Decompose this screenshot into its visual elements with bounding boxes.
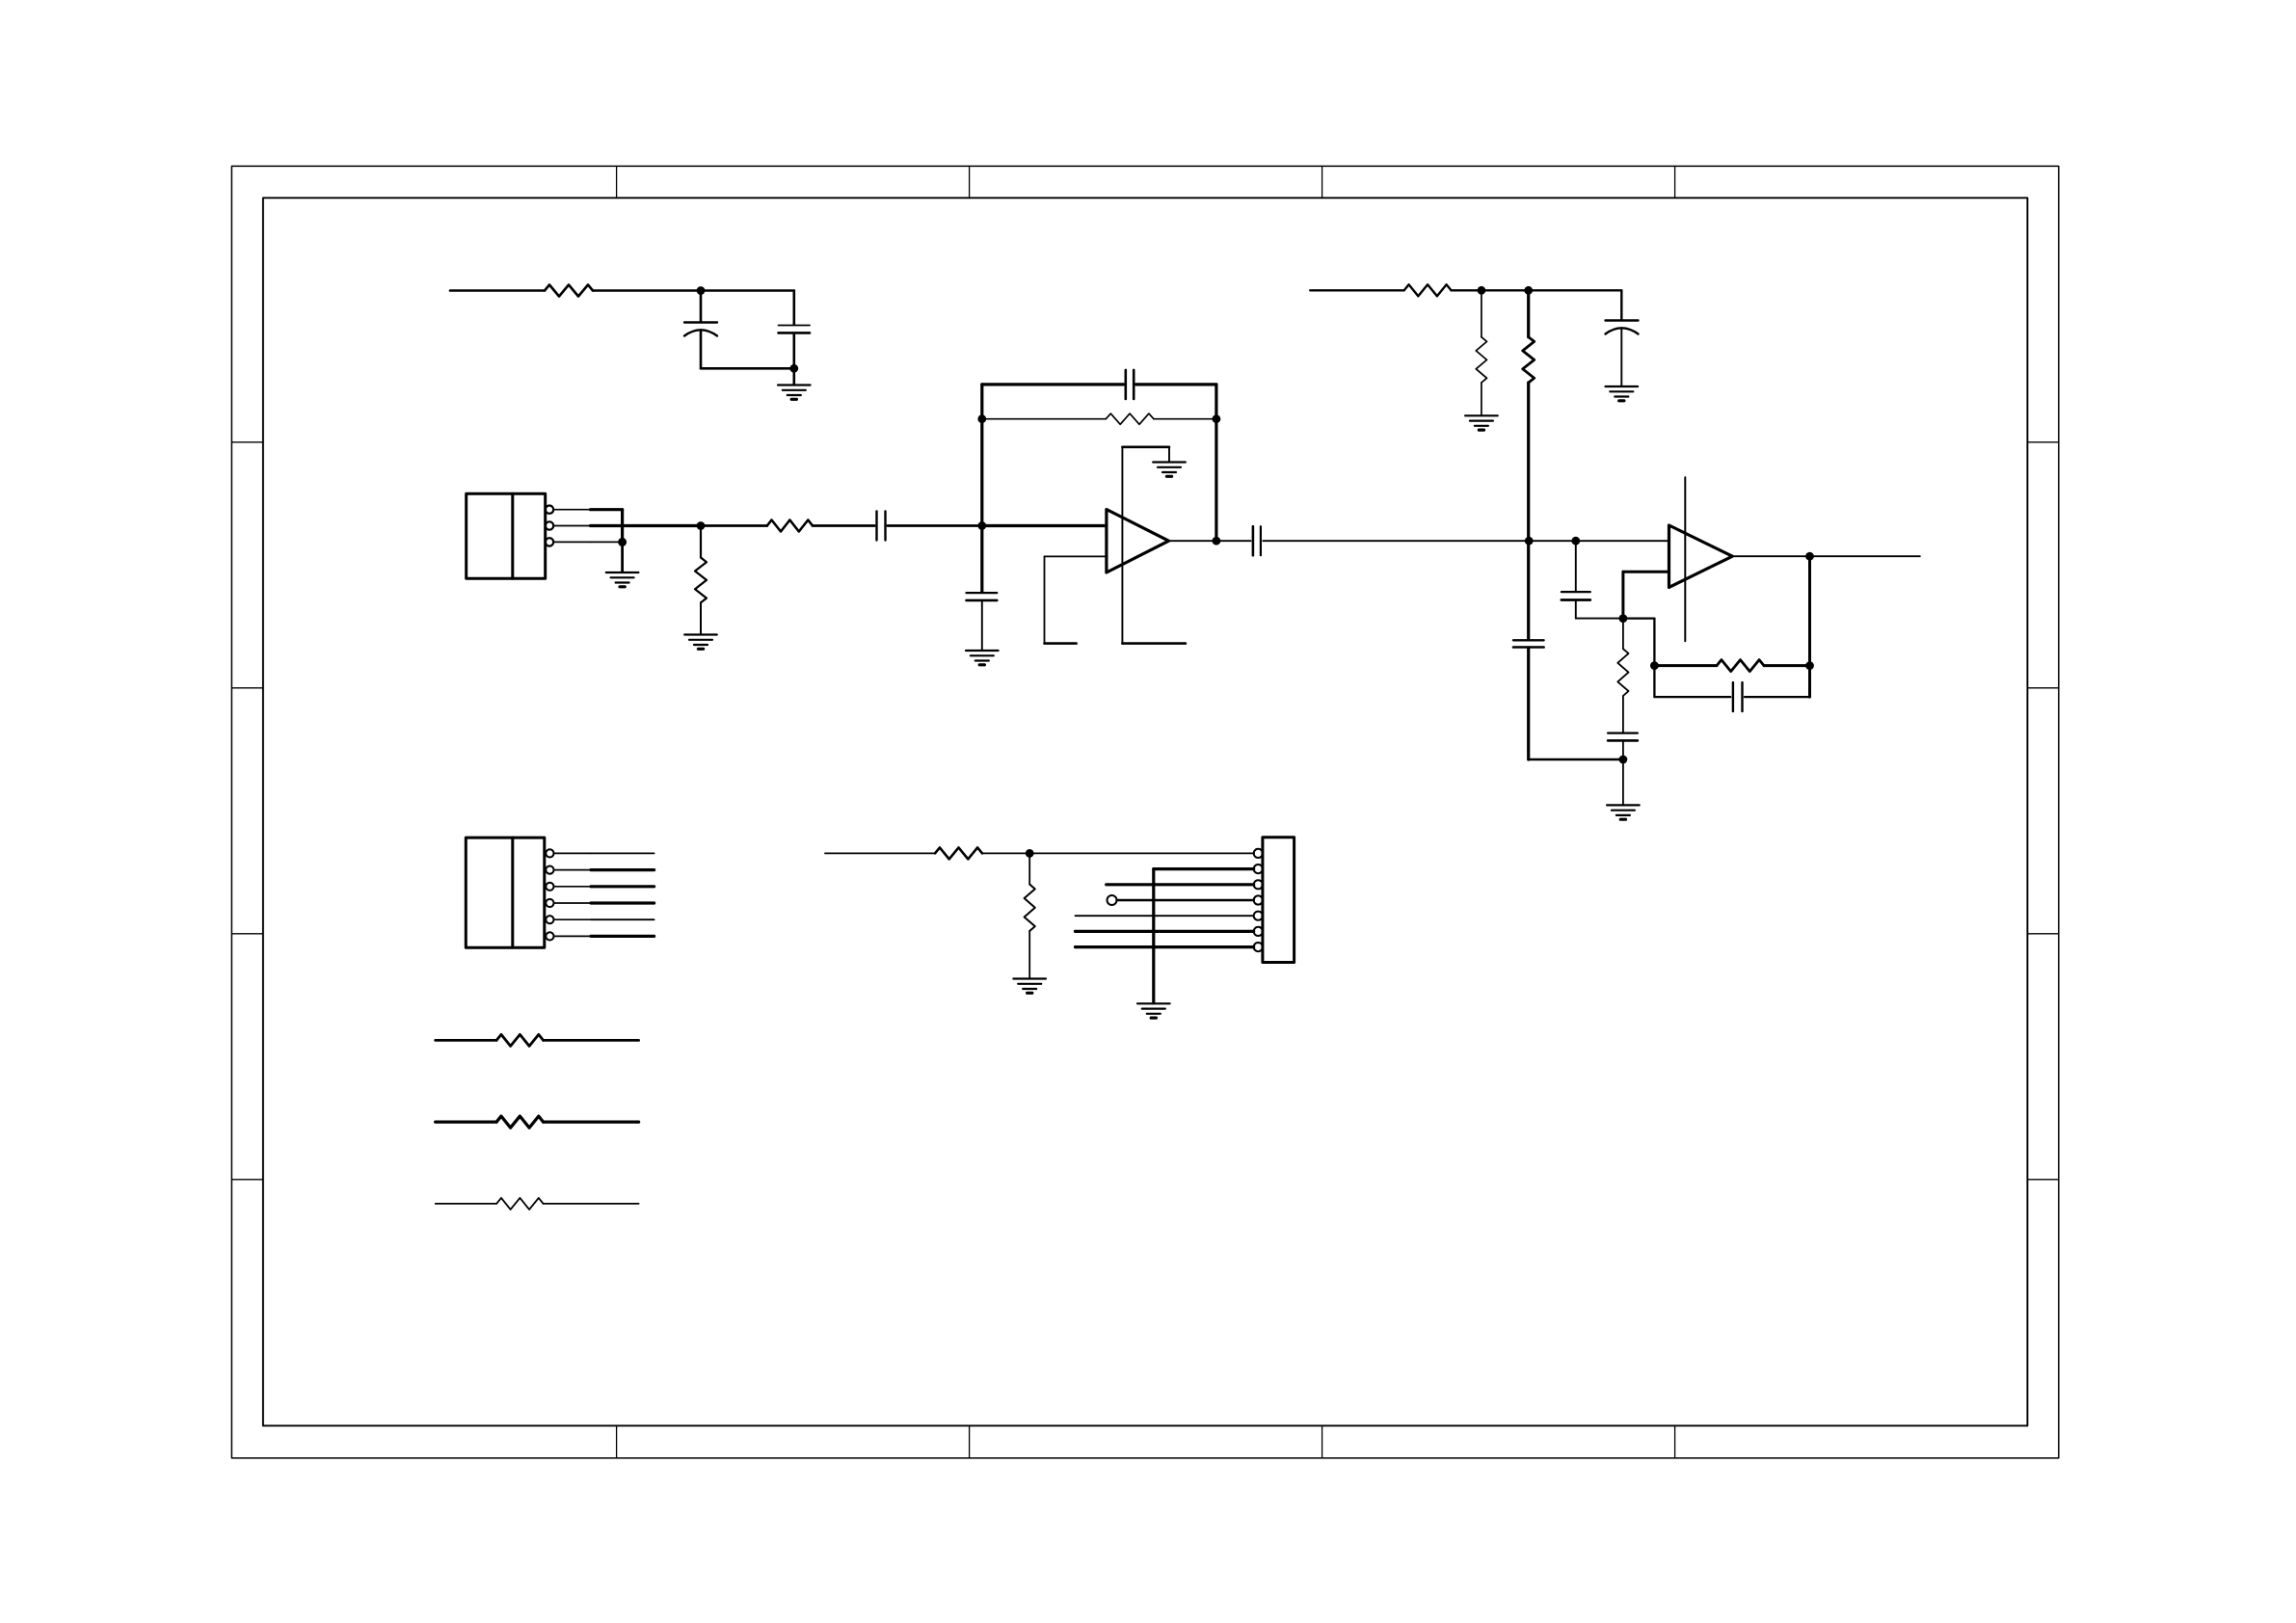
- node A1: [697, 286, 706, 295]
- pin 3 of J2: [546, 883, 591, 891]
- wire: [701, 524, 767, 527]
- resistor R6: [1404, 284, 1452, 296]
- wire: [982, 524, 1107, 527]
- wire: [1622, 759, 1624, 805]
- wire (output): [1810, 555, 1920, 557]
- pin 5 of J2: [546, 916, 591, 923]
- node B1: [618, 538, 627, 546]
- wire: [1529, 758, 1623, 761]
- wire: [1216, 540, 1251, 542]
- ground: [1607, 805, 1640, 819]
- node D6: [1805, 661, 1814, 670]
- wire (J3 pin 2 net): [1154, 869, 1254, 1003]
- capacitor C7 (series in vertical): [1513, 640, 1544, 759]
- wire: [1808, 556, 1811, 697]
- wire (J3 pin 3 net): [1107, 883, 1254, 886]
- resistor R3: [695, 526, 707, 635]
- node B3: [977, 521, 986, 530]
- node F1: [977, 414, 986, 423]
- wire: [593, 289, 701, 292]
- capacitor C9: [1562, 541, 1590, 618]
- wire: [792, 368, 795, 385]
- resistor R11: [935, 847, 982, 859]
- pin 6 of J3: [1254, 927, 1263, 936]
- sheet inner border: [263, 198, 2027, 1425]
- wire: [980, 385, 983, 592]
- wire: [1310, 289, 1404, 291]
- op-amp U2: [1669, 525, 1733, 587]
- wire: [825, 852, 935, 854]
- wire: [450, 289, 545, 292]
- node A2: [789, 364, 798, 373]
- wire (inverting input stub): [1045, 556, 1107, 643]
- sheet zone tick marks: [231, 166, 2058, 1458]
- pin 2 of J2: [546, 866, 591, 874]
- wire: [701, 289, 794, 292]
- node D2: [1571, 537, 1580, 545]
- resistor R7: [1476, 290, 1486, 415]
- wire (J3 pin 7 net): [1076, 945, 1254, 948]
- wire: [1122, 642, 1186, 645]
- resistor R5: [1106, 413, 1154, 424]
- wire: [1529, 289, 1622, 291]
- op-amp U2 power pin wire: [1684, 477, 1686, 641]
- op-amp U1: [1107, 510, 1169, 573]
- wire: [1576, 540, 1669, 542]
- ground: [684, 635, 717, 650]
- resistor R4: [767, 520, 813, 532]
- node D1: [1525, 537, 1534, 545]
- resistor R9 (to gnd): [1617, 619, 1628, 732]
- wire: [1452, 289, 1482, 291]
- wire: [1263, 540, 1529, 542]
- pin 6 of J2: [546, 932, 591, 940]
- pin 1 of J2: [546, 849, 591, 857]
- node F3: [1213, 537, 1221, 545]
- capacitor C1 (polarized): [684, 291, 717, 369]
- wire: [1576, 618, 1623, 620]
- connector J2: [466, 838, 545, 947]
- resistor R1: [545, 285, 593, 297]
- resistor R15: [436, 1198, 639, 1210]
- pin 5 of J3: [1254, 912, 1263, 920]
- ground: [1465, 415, 1498, 430]
- ground: [1137, 1003, 1170, 1018]
- pin 2 of J3: [1254, 865, 1263, 873]
- resistor R8: [1523, 290, 1535, 639]
- node C2: [1524, 286, 1533, 295]
- wire (feedback tap): [1623, 619, 1655, 698]
- resistor R10 (feedback): [1717, 660, 1764, 672]
- capacitor C11 (feedback): [1733, 682, 1743, 711]
- node D3: [1619, 614, 1628, 623]
- ground: [1153, 463, 1186, 477]
- wire: [701, 367, 794, 370]
- wire: [982, 852, 1029, 854]
- pin 2 of J1: [546, 521, 591, 529]
- resistor R13: [436, 1034, 639, 1046]
- wire (J3 pin 6 net): [1076, 930, 1254, 933]
- wire (J2 pin 1): [591, 852, 654, 854]
- wire: [591, 510, 623, 543]
- wire (inverting input): [1623, 572, 1669, 618]
- wire: [1529, 540, 1576, 542]
- wire: [1764, 664, 1810, 667]
- wire (J2 pin 2): [591, 868, 654, 871]
- node D7: [1805, 552, 1814, 561]
- pin 1 of J1: [546, 506, 591, 514]
- wire: [1154, 418, 1216, 420]
- wire: [1169, 540, 1216, 542]
- sheet outer border: [231, 166, 2058, 1458]
- wire: [1482, 289, 1529, 291]
- wire (J3 pin 5 net): [1076, 915, 1254, 917]
- wire: [1745, 696, 1810, 698]
- wire: [982, 383, 1124, 386]
- ground: [778, 386, 811, 400]
- wire: [1654, 696, 1730, 698]
- pin 7 of J3: [1254, 943, 1263, 951]
- node D5: [1650, 661, 1659, 670]
- wire: [813, 524, 874, 527]
- capacitor C8 (polarized): [1606, 290, 1639, 386]
- wire (J2 pin 3): [591, 885, 654, 888]
- capacitor C2: [779, 291, 811, 369]
- capacitor C6 (output coupling): [1253, 526, 1261, 555]
- capacitor C3: [877, 512, 886, 541]
- node F2: [1213, 414, 1221, 423]
- ground: [966, 651, 999, 665]
- wire: [1215, 385, 1217, 541]
- pin 3 of J3: [1254, 880, 1263, 889]
- wire (J2 pin 4): [591, 901, 654, 904]
- wire: [1654, 664, 1717, 667]
- node C1: [1478, 286, 1486, 295]
- connector J1: [467, 493, 546, 578]
- connector J3: [1263, 838, 1295, 963]
- ground: [1013, 979, 1046, 994]
- node D4: [1619, 756, 1628, 764]
- wire: [591, 541, 623, 543]
- node E1: [1026, 849, 1034, 858]
- wire: [1136, 383, 1216, 386]
- resistor R12 (to gnd): [1025, 853, 1035, 978]
- wire: [888, 524, 982, 527]
- resistor R14: [436, 1116, 639, 1128]
- wire (J2 pin 6): [591, 935, 654, 938]
- pin 4 of J3: [1254, 895, 1263, 904]
- pin 3 of J1: [546, 538, 591, 545]
- wire: [621, 542, 624, 572]
- node B2: [697, 521, 706, 530]
- wire: [1732, 555, 1809, 557]
- wire: [591, 524, 702, 527]
- op-amp U1 power pin wire: [1122, 447, 1169, 644]
- wire (J2 pin 5): [591, 918, 654, 920]
- capacitor C10: [1608, 733, 1638, 759]
- capacitor C4: [1126, 370, 1134, 399]
- pin 4 of J2: [546, 899, 591, 907]
- wire: [1029, 852, 1254, 854]
- wire: [982, 418, 1107, 420]
- capacitor C5 (under input node): [967, 593, 998, 650]
- no-connect stub (J3 pin 4): [1108, 895, 1254, 905]
- pin 1 of J3: [1254, 849, 1263, 858]
- ground: [1606, 386, 1639, 401]
- ground: [606, 572, 639, 587]
